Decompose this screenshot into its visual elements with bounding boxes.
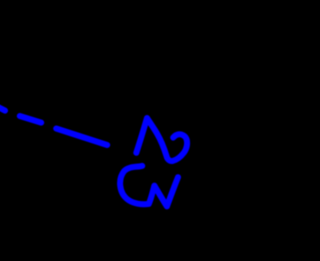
dash 1 of dashed line xyxy=(0,107,5,110)
dash 3 of dashed line xyxy=(56,129,107,146)
digit 3 (rotated label) xyxy=(120,166,178,207)
dash 2 of dashed line xyxy=(20,116,41,123)
digit 2 (rotated label) xyxy=(136,118,187,161)
